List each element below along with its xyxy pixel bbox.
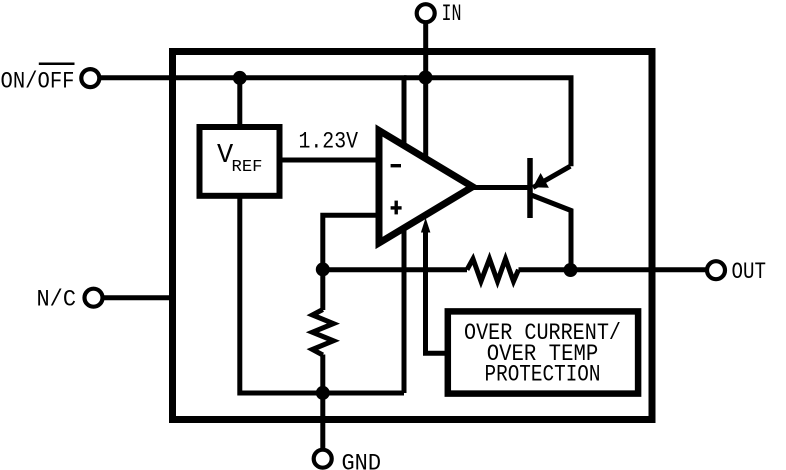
resistor R1 horizontal sense resistor <box>467 259 519 281</box>
wire VREF ground leg and bottom ground rail <box>240 196 404 393</box>
svg-text:PROTECTION: PROTECTION <box>485 361 601 387</box>
terminal ON/OFF pin circle <box>81 69 99 87</box>
wire pass transistor base from op-amp output <box>473 185 530 190</box>
junction dot at ON/OFF-VREF node <box>233 71 247 85</box>
arrowhead of protection control arrow into op-amp <box>421 218 431 233</box>
wire N/C stub to boundary <box>94 295 177 300</box>
junction dot at ground rail node <box>316 386 330 400</box>
svg-text:GND: GND <box>342 451 382 470</box>
terminal N/C pin circle <box>85 289 103 307</box>
wire op-amp minus input from VREF <box>280 158 378 163</box>
junction dot at OUT node <box>564 263 578 277</box>
svg-text:IN: IN <box>442 1 462 27</box>
over current / over temp protection block box <box>448 311 638 393</box>
wire protection block to op-amp arrow shaft <box>426 228 448 353</box>
svg-text:REF: REF <box>232 158 263 177</box>
op-amp U1 plus input label <box>391 201 402 215</box>
wire vertical resistor top lead <box>320 270 325 311</box>
IC outer boundary box <box>173 52 653 420</box>
junction dot at IN node <box>419 71 433 85</box>
wire sense resistor to OUT terminal <box>519 267 717 272</box>
transistor Q1 emitter diagonal <box>533 166 570 187</box>
terminal OUT pin circle <box>707 261 725 279</box>
wire feedback node to sense resistor <box>323 267 467 272</box>
wire VREF top feed from ON/OFF node <box>237 78 242 127</box>
wire pass transistor collector to OUT node <box>530 195 571 271</box>
VREF block box <box>200 127 280 196</box>
wire vertical resistor bottom lead and GND drop <box>320 355 325 459</box>
op-amp U1 minus input label <box>391 164 401 167</box>
transistor Q1 emitter arrowhead (PNP) <box>533 173 549 188</box>
resistor R2 vertical divider resistor <box>312 310 333 356</box>
terminal GND pin circle <box>314 450 332 468</box>
wire IN node to pass transistor emitter <box>404 78 571 167</box>
terminal IN pin circle <box>417 4 435 22</box>
junction dot at feedback node <box>316 262 330 276</box>
op-amp U1 comparator triangle <box>379 131 473 244</box>
wire ON/OFF input rail to internal node <box>90 78 404 393</box>
svg-text:OUT: OUT <box>732 259 767 285</box>
transistor Q1 base bar <box>527 158 533 218</box>
wire op-amp plus input to feedback node <box>323 215 378 269</box>
wire IN terminal drop to op-amp power <box>423 13 428 170</box>
svg-text:N/C: N/C <box>37 286 77 312</box>
svg-text:1.23V: 1.23V <box>299 129 359 155</box>
svg-text:ON/OFF: ON/OFF <box>1 68 75 94</box>
overline over OFF <box>39 62 75 65</box>
